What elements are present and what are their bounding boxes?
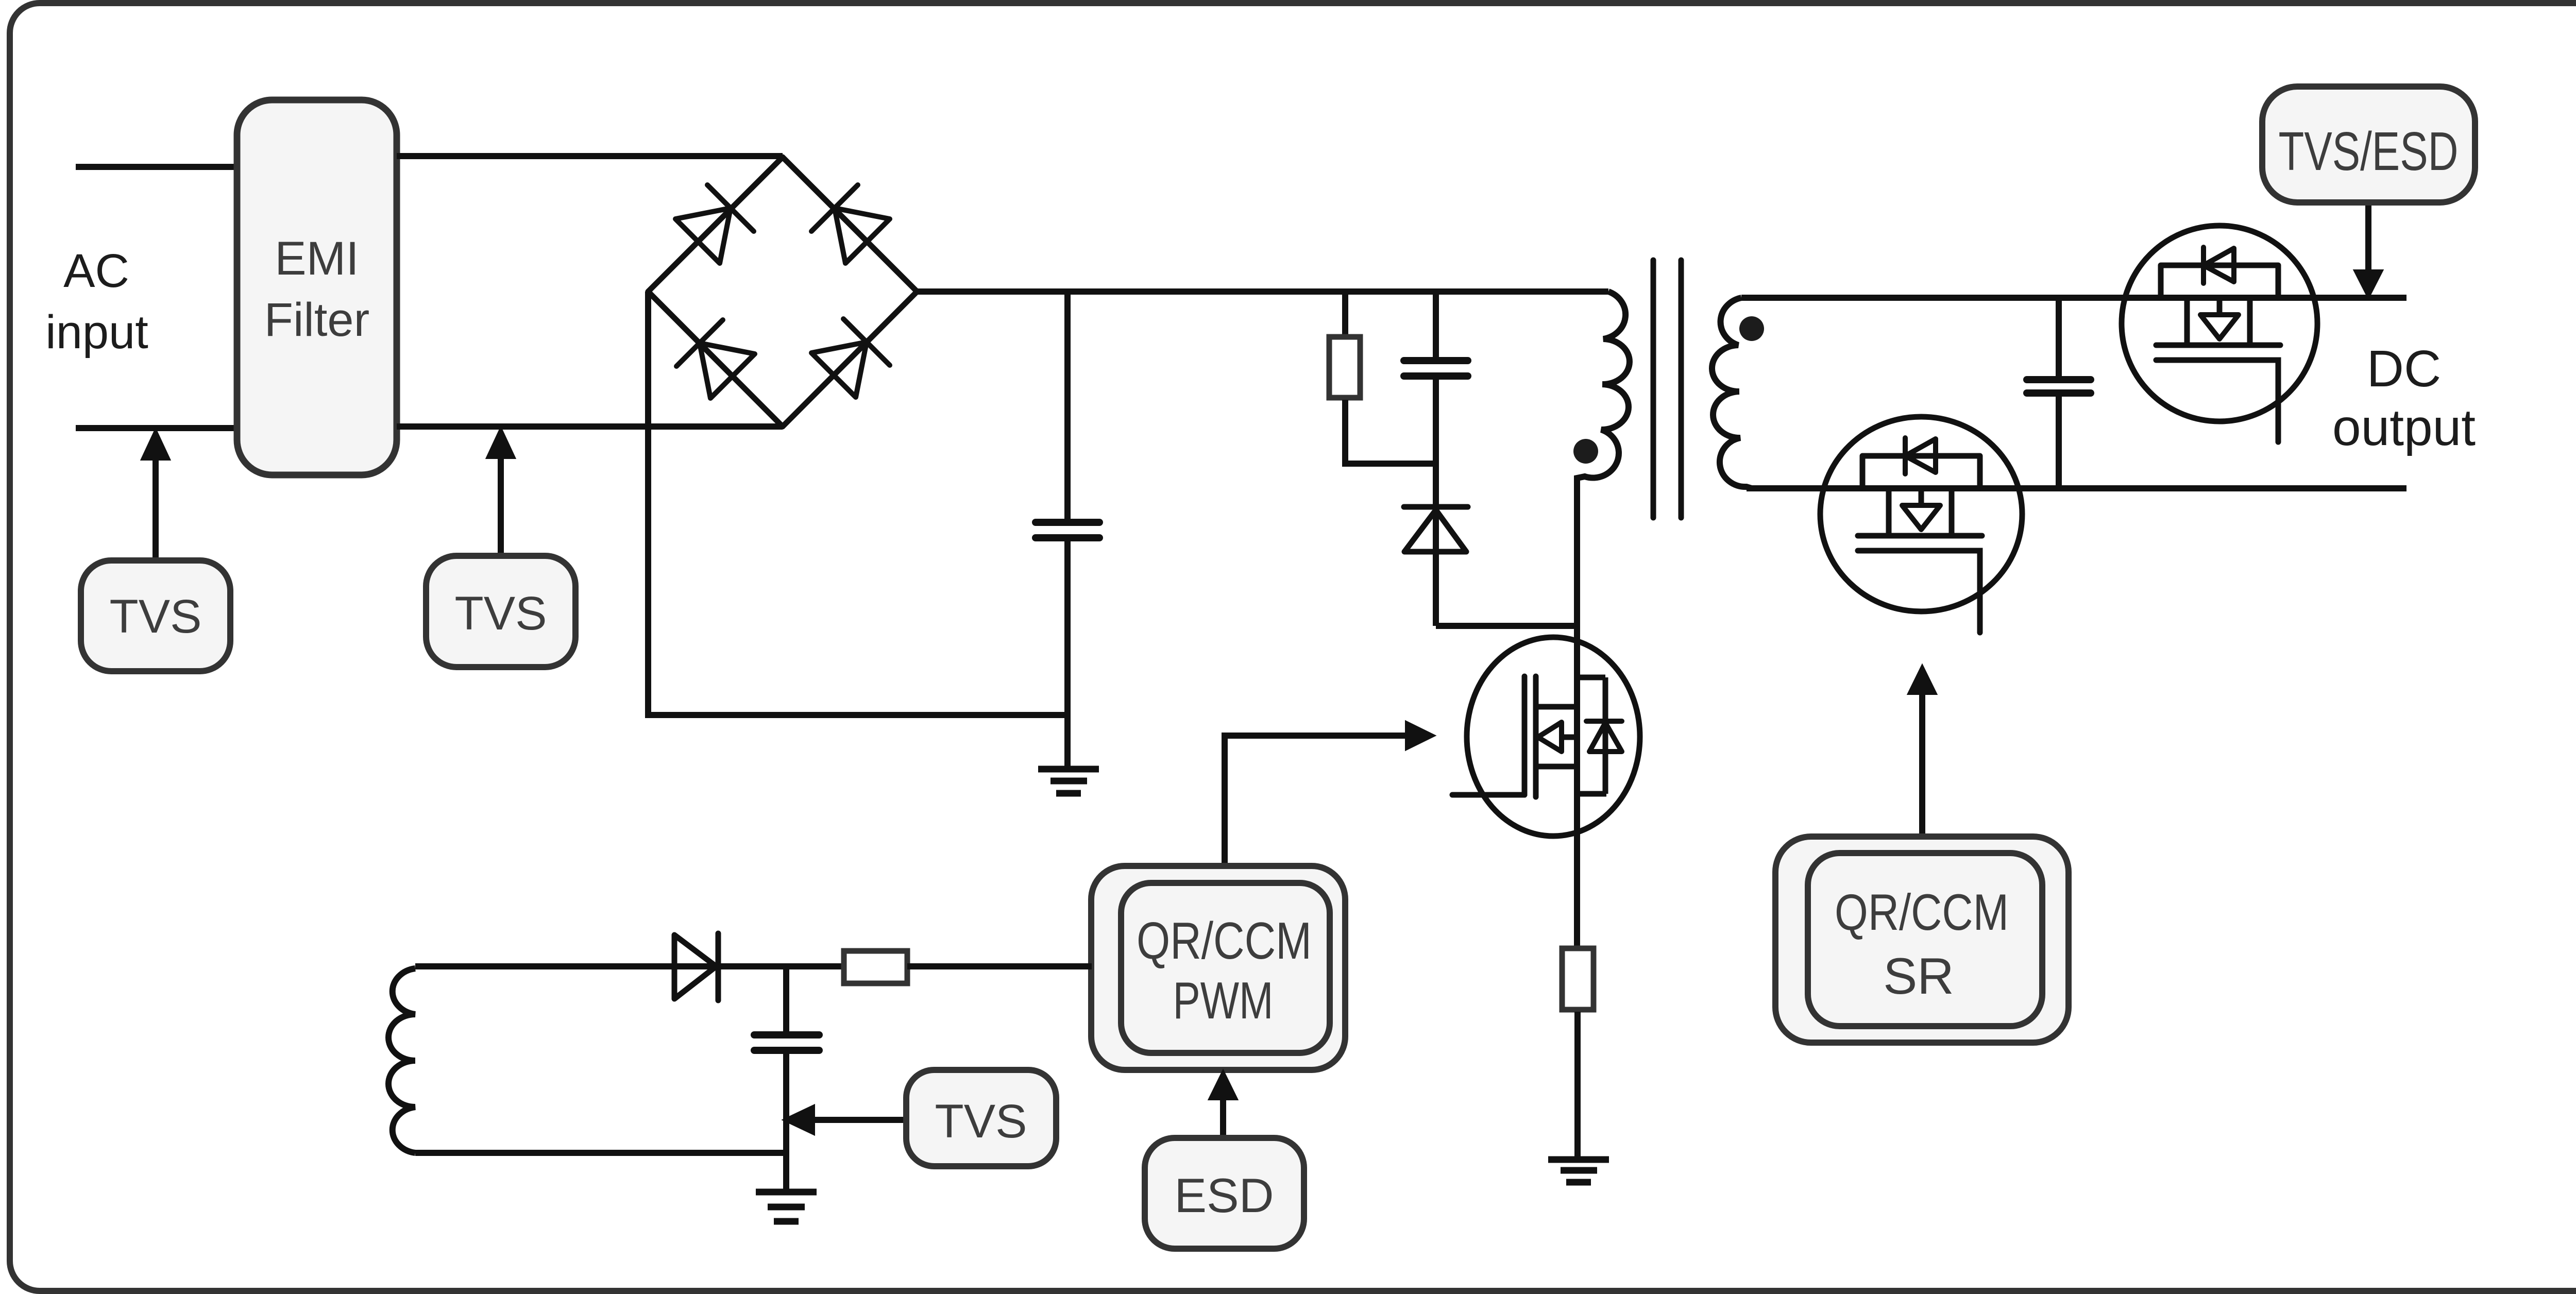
transformer core <box>1653 260 1681 518</box>
diode D2 top-right <box>811 185 890 263</box>
svg-text:ESD: ESD <box>1174 1168 1274 1222</box>
TVS box 1 <box>81 560 230 671</box>
wire secondary top rail <box>1741 295 2406 301</box>
wire AC line top-left <box>76 164 237 170</box>
TVS/ESD block <box>2262 87 2475 202</box>
aux winding <box>388 968 415 1153</box>
TVS arrow 3 <box>784 1105 906 1134</box>
ESD arrow <box>1209 1071 1237 1138</box>
EMI Filter block <box>237 100 397 475</box>
resistor R1 snubber <box>1329 292 1436 464</box>
svg-text:TVS: TVS <box>935 1095 1027 1148</box>
TVS box 2 <box>426 556 575 667</box>
transformer secondary phase dot <box>1739 316 1764 341</box>
diode D1 top-left <box>675 185 754 263</box>
ground G1 <box>1038 769 1099 793</box>
MOSFET Q1 primary switch <box>1452 637 1640 836</box>
TVS arrow 2 <box>487 428 515 556</box>
svg-text:SR: SR <box>1883 947 1954 1004</box>
svg-text:TVS: TVS <box>110 590 202 643</box>
diode D3 bottom-left <box>676 320 755 398</box>
svg-text:EMI: EMI <box>275 232 359 285</box>
capacitor C1 bulk <box>1036 292 1099 766</box>
svg-text:output: output <box>2332 399 2476 456</box>
transformer primary phase dot <box>1573 439 1598 464</box>
QR/CCM PWM block <box>1091 866 1345 1070</box>
wire DC bus <box>917 288 1608 295</box>
ground G2 <box>1548 1160 1609 1182</box>
wire secondary bottom rail <box>1747 485 2406 491</box>
TVS/ESD arrow <box>2354 202 2382 298</box>
bridge rectifier diamond <box>648 157 917 427</box>
capacitor C2 snubber <box>1404 292 1468 507</box>
wire aux top <box>415 963 844 969</box>
svg-text:Filter: Filter <box>264 294 369 346</box>
wire AC line bottom-left <box>76 425 237 431</box>
resistor R3 aux <box>844 951 1092 983</box>
ESD block <box>1145 1138 1304 1249</box>
gate drive arrow from PWM <box>1225 722 1434 866</box>
node AC input label <box>45 245 148 359</box>
ground G3 <box>756 1192 817 1221</box>
svg-text:TVS/ESD: TVS/ESD <box>2279 121 2459 182</box>
node DC output label <box>2332 340 2476 456</box>
svg-text:DC: DC <box>2367 340 2441 398</box>
wire AC line bottom-right to bridge <box>397 423 783 430</box>
diode D5 clamp <box>1404 507 1577 626</box>
svg-text:PWM: PWM <box>1173 972 1274 1030</box>
transformer primary winding <box>1577 292 1630 946</box>
arrow from QR/CCM SR <box>1908 666 1936 837</box>
resistor R2 sense <box>1562 948 1594 1156</box>
diode D6 aux <box>674 933 718 1000</box>
capacitor C4 output <box>2027 298 2091 488</box>
svg-text:AC: AC <box>63 245 129 297</box>
svg-text:TVS: TVS <box>455 587 547 640</box>
svg-text:QR/CCM: QR/CCM <box>1835 883 2009 941</box>
wire aux bottom <box>415 1150 786 1156</box>
TVS arrow 1 <box>142 430 170 560</box>
svg-text:QR/CCM: QR/CCM <box>1137 912 1312 970</box>
wire AC line top-right to bridge <box>397 153 783 159</box>
capacitor C3 aux <box>754 966 819 1189</box>
transformer secondary winding <box>1712 298 1752 488</box>
MOSFET Q3 output disconnect <box>2122 226 2317 442</box>
svg-text:input: input <box>45 306 148 359</box>
wire negative return loop <box>648 292 1067 715</box>
QR/CCM SR block <box>1775 837 2069 1043</box>
MOSFET Q2 synchronous rectifier <box>1820 417 2022 633</box>
TVS box 3 <box>906 1070 1056 1166</box>
diode D4 bottom-right <box>811 319 890 397</box>
